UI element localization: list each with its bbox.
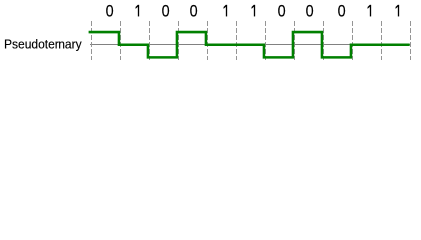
svg-text:0: 0 — [106, 3, 114, 21]
svg-text:0: 0 — [190, 3, 198, 21]
svg-text:Pseudoternary: Pseudoternary — [4, 37, 82, 51]
svg-text:0: 0 — [338, 3, 346, 21]
svg-text:0: 0 — [278, 3, 286, 21]
svg-text:0: 0 — [162, 3, 170, 21]
svg-text:0: 0 — [306, 3, 314, 21]
